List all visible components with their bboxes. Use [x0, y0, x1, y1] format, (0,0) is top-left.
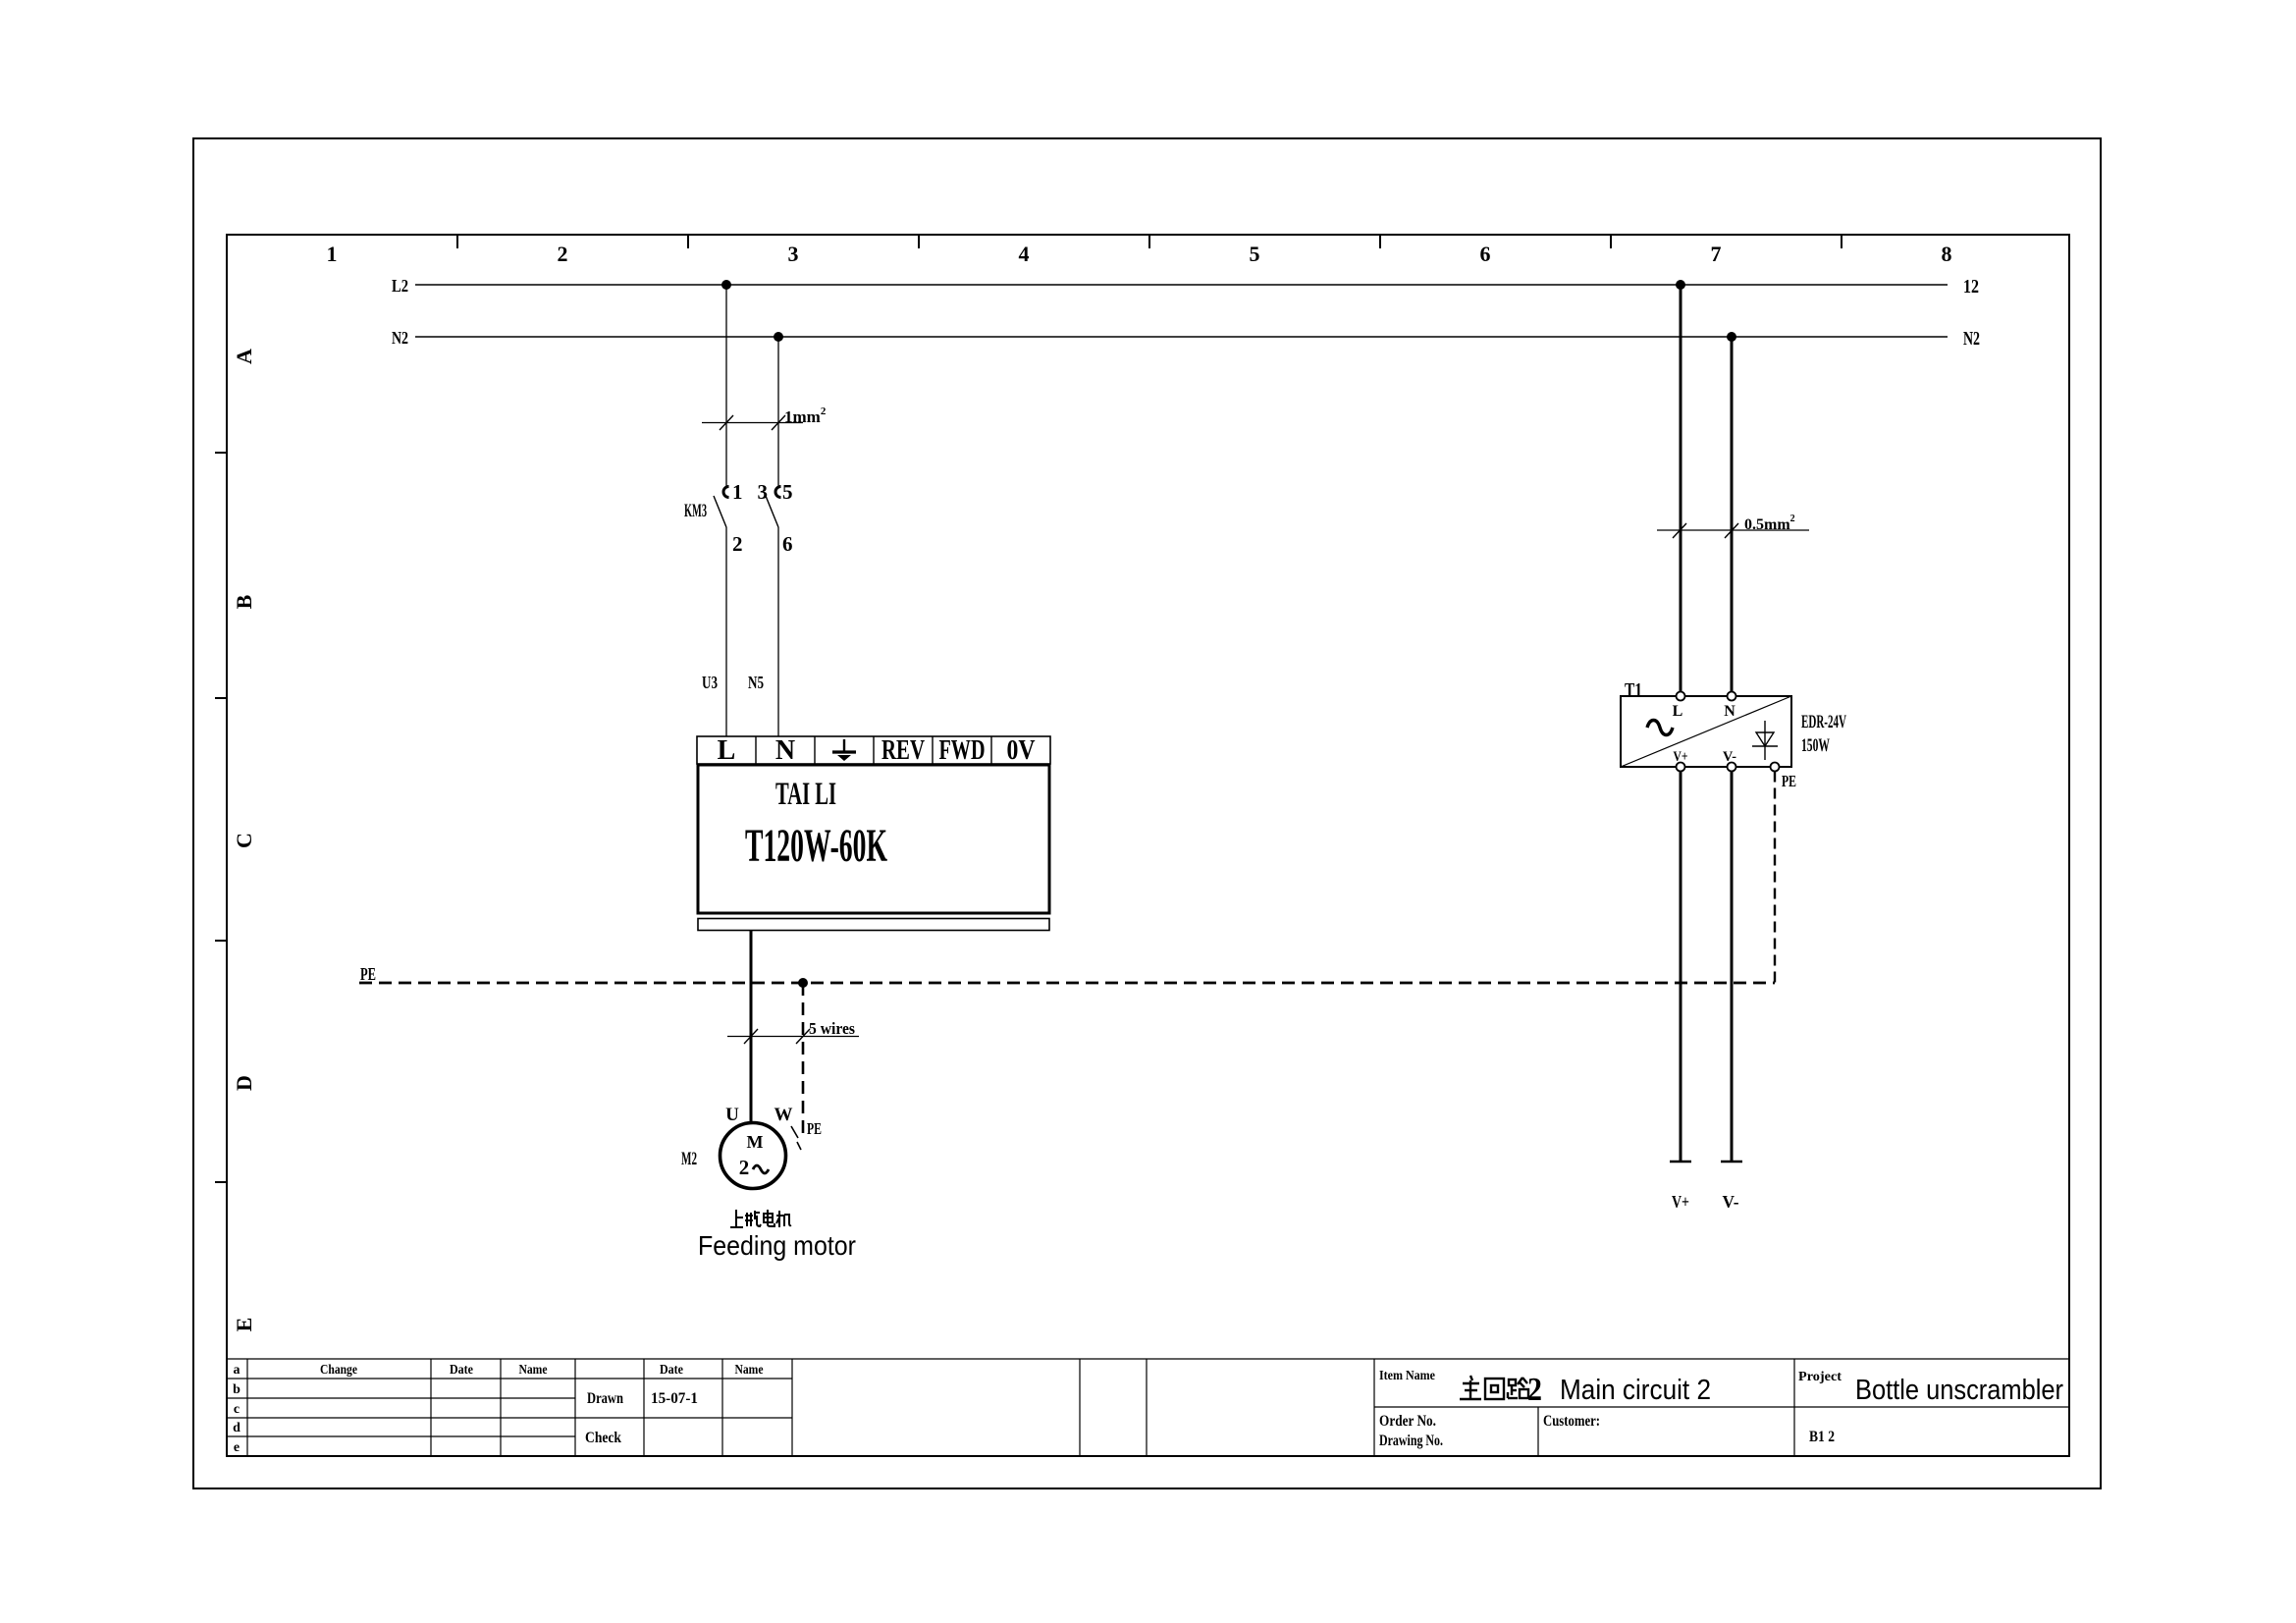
- svg-text:A: A: [232, 349, 256, 364]
- svg-text:L: L: [1673, 703, 1683, 720]
- svg-text:C: C: [232, 833, 256, 848]
- svg-text:1mm2: 1mm2: [784, 406, 827, 426]
- svg-text:5 wires: 5 wires: [809, 1019, 855, 1038]
- svg-text:Customer:: Customer:: [1543, 1413, 1600, 1430]
- contactor KM3 pole 2 (pins 5-6, pole label 3): [758, 480, 793, 556]
- svg-text:KM3: KM3: [684, 501, 707, 521]
- svg-text:3: 3: [788, 242, 799, 266]
- svg-text:Check: Check: [585, 1430, 621, 1446]
- motor controller TAI LI T120W-60K: [698, 765, 1049, 913]
- svg-text:150W: 150W: [1801, 735, 1830, 756]
- wire V+ output: [1670, 772, 1691, 1213]
- svg-text:N: N: [775, 735, 795, 766]
- svg-text:Change: Change: [320, 1363, 357, 1378]
- svg-text:M: M: [747, 1132, 764, 1152]
- svg-text:12: 12: [1963, 276, 1979, 298]
- svg-text:Name: Name: [519, 1363, 548, 1378]
- svg-text:REV: REV: [881, 735, 925, 766]
- svg-text:V+: V+: [1672, 1192, 1689, 1212]
- svg-text:EDR-24V: EDR-24V: [1801, 712, 1846, 732]
- svg-text:e: e: [234, 1440, 240, 1455]
- svg-text:FWD: FWD: [939, 735, 986, 766]
- node N2 rail: [392, 328, 1980, 350]
- svg-text:2: 2: [1527, 1372, 1542, 1408]
- svg-text:d: d: [233, 1421, 240, 1435]
- svg-text:2: 2: [739, 1156, 750, 1179]
- svg-text:N2: N2: [1963, 328, 1980, 350]
- svg-text:PE: PE: [1782, 772, 1796, 790]
- node PE dashed net: [359, 964, 1775, 984]
- svg-text:2: 2: [732, 532, 743, 556]
- svg-text:T120W-60K: T120W-60K: [745, 820, 887, 872]
- svg-text:Project: Project: [1798, 1370, 1842, 1384]
- svg-text:4: 4: [1019, 242, 1030, 266]
- label 上瓶电机 (stroke drawn): [730, 1210, 791, 1227]
- svg-text:B: B: [232, 594, 256, 609]
- junction L2 / T1 branch: [1676, 280, 1685, 290]
- svg-text:Drawn: Drawn: [587, 1390, 623, 1407]
- junction N2 / left branch: [774, 332, 783, 342]
- svg-text:B1 2: B1 2: [1809, 1429, 1835, 1445]
- junction L2 / left branch: [721, 280, 731, 290]
- svg-text:W: W: [774, 1105, 793, 1125]
- wire PE from T1 (dashed): [1775, 772, 1796, 986]
- wire V- output: [1721, 772, 1742, 1213]
- svg-text:N5: N5: [748, 673, 764, 692]
- label 主回路2 (stroke drawn): [1460, 1376, 1528, 1399]
- wire PE drop to motor (dashed): [802, 983, 805, 1136]
- svg-text:L: L: [718, 735, 736, 766]
- svg-text:E: E: [232, 1318, 256, 1332]
- svg-text:7: 7: [1711, 242, 1722, 266]
- power supply T1 EDR-24V 150W: [1621, 679, 1846, 772]
- svg-text:D: D: [232, 1075, 256, 1091]
- svg-text:1: 1: [732, 480, 743, 504]
- svg-text:M2: M2: [681, 1149, 697, 1169]
- wire L2 branch down to KM3 pin 1: [725, 285, 727, 486]
- wire N5 (KM3 pin 6 to controller N): [748, 527, 778, 736]
- svg-text:T1: T1: [1625, 679, 1642, 701]
- svg-text:V-: V-: [1723, 1192, 1739, 1212]
- svg-text:5: 5: [782, 480, 793, 504]
- svg-text:5: 5: [1250, 242, 1260, 266]
- svg-text:2: 2: [558, 242, 568, 266]
- svg-text:N2: N2: [392, 328, 408, 348]
- svg-text:8: 8: [1942, 242, 1952, 266]
- svg-text:Item Name: Item Name: [1379, 1369, 1435, 1383]
- svg-text:15-07-1: 15-07-1: [651, 1390, 698, 1407]
- svg-text:Main circuit 2: Main circuit 2: [1560, 1375, 1711, 1406]
- svg-text:U: U: [725, 1105, 739, 1125]
- svg-text:0V: 0V: [1007, 735, 1036, 766]
- svg-text:Order No.: Order No.: [1379, 1413, 1436, 1430]
- wire U3 (KM3 pin 2 to controller L): [702, 527, 726, 736]
- cable marker 1mm2: [702, 406, 827, 430]
- svg-text:c: c: [234, 1402, 240, 1417]
- svg-text:b: b: [233, 1382, 240, 1397]
- svg-text:6: 6: [1480, 242, 1491, 266]
- svg-text:Name: Name: [735, 1363, 764, 1378]
- svg-text:N: N: [1724, 703, 1735, 720]
- wire N2 branch down to KM3 pin 5: [777, 337, 779, 486]
- controller bottom terminal block: [698, 919, 1049, 931]
- node L2 rail: [392, 276, 1979, 298]
- wire N2 down to T1 terminal N: [1731, 337, 1734, 696]
- svg-text:a: a: [234, 1363, 240, 1378]
- svg-text:Drawing No.: Drawing No.: [1379, 1433, 1443, 1449]
- svg-text:3: 3: [758, 480, 769, 504]
- svg-text:PE: PE: [360, 964, 376, 984]
- svg-text:TAI LI: TAI LI: [775, 777, 836, 812]
- svg-text:6: 6: [782, 532, 793, 556]
- motor PE clamp slash: [791, 1126, 801, 1150]
- svg-text:L2: L2: [392, 276, 408, 296]
- cable marker 0.5mm2: [1657, 514, 1809, 538]
- svg-text:0.5mm2: 0.5mm2: [1744, 514, 1795, 533]
- cable marker 5 wires: [727, 1019, 859, 1044]
- svg-text:U3: U3: [702, 673, 718, 692]
- junction N2 / T1 branch: [1727, 332, 1736, 342]
- outer sheet frame (decorative): [193, 138, 2101, 1488]
- svg-text:PE: PE: [807, 1119, 822, 1138]
- svg-text:Bottle unscrambler: Bottle unscrambler: [1855, 1375, 2063, 1406]
- diode symbol inside T1: [1752, 721, 1778, 760]
- junction PE / motor PE drop: [798, 978, 808, 988]
- svg-text:Date: Date: [660, 1363, 683, 1378]
- motor M2 circle: [721, 1123, 786, 1189]
- wire controller to motor M2 (U): [750, 931, 753, 1123]
- contactor KM3 pole 1 (pins 1-2): [714, 480, 743, 556]
- svg-text:Feeding motor: Feeding motor: [698, 1230, 856, 1261]
- terminal strip of controller: L N PE REV FWD 0V: [697, 735, 1050, 766]
- wire L2 down to T1 terminal L: [1680, 285, 1682, 696]
- svg-text:1: 1: [327, 242, 338, 266]
- title block: [227, 1359, 2069, 1456]
- ground terminal symbol in strip: [832, 739, 856, 761]
- svg-text:Date: Date: [450, 1363, 473, 1378]
